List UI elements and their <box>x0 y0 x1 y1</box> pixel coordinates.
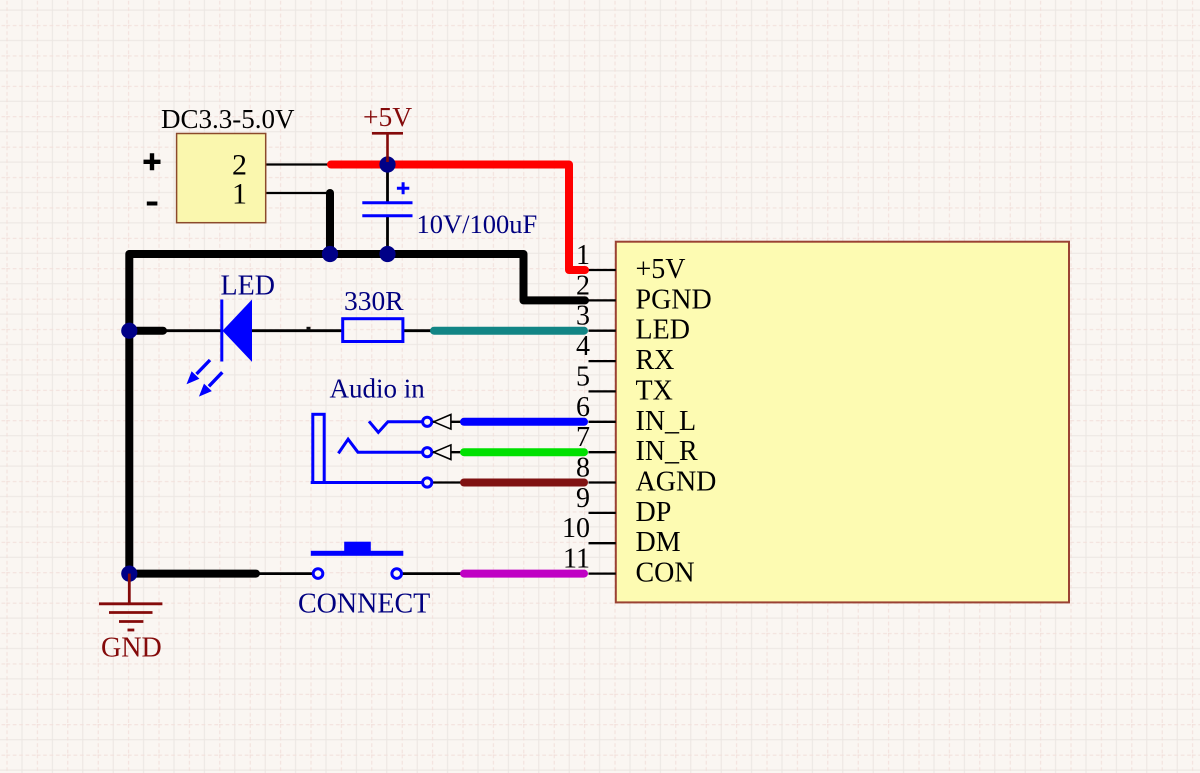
svg-text:6: 6 <box>576 392 590 423</box>
svg-text:CON: CON <box>636 558 695 589</box>
svg-text:330R: 330R <box>344 285 404 316</box>
svg-text:1: 1 <box>232 178 247 211</box>
svg-text:DC3.3-5.0V: DC3.3-5.0V <box>161 104 295 134</box>
svg-text:IN_R: IN_R <box>636 436 699 467</box>
svg-text:LED: LED <box>636 315 690 346</box>
svg-text:LED: LED <box>221 271 275 302</box>
svg-text:1: 1 <box>576 240 590 271</box>
svg-text:3: 3 <box>576 301 590 332</box>
svg-text:8: 8 <box>576 453 590 484</box>
svg-text:DP: DP <box>636 497 672 528</box>
svg-text:10V/100uF: 10V/100uF <box>417 209 538 239</box>
svg-text:PGND: PGND <box>636 284 712 315</box>
svg-text:Audio in: Audio in <box>330 374 426 404</box>
svg-text:TX: TX <box>636 375 673 406</box>
svg-text:+5V: +5V <box>363 101 412 132</box>
svg-text:10: 10 <box>562 513 590 544</box>
svg-text:RX: RX <box>636 345 675 376</box>
svg-text:4: 4 <box>576 331 590 362</box>
svg-text:+5V: +5V <box>636 254 686 285</box>
svg-text:9: 9 <box>576 483 590 514</box>
svg-text:AGND: AGND <box>636 467 717 498</box>
svg-text:11: 11 <box>563 544 590 575</box>
svg-text:IN_L: IN_L <box>636 406 697 437</box>
svg-text:2: 2 <box>576 270 590 301</box>
svg-text:5: 5 <box>576 361 590 392</box>
svg-text:GND: GND <box>101 633 162 664</box>
svg-text:DM: DM <box>636 527 681 558</box>
svg-text:7: 7 <box>576 422 590 453</box>
svg-text:CONNECT: CONNECT <box>298 589 430 620</box>
